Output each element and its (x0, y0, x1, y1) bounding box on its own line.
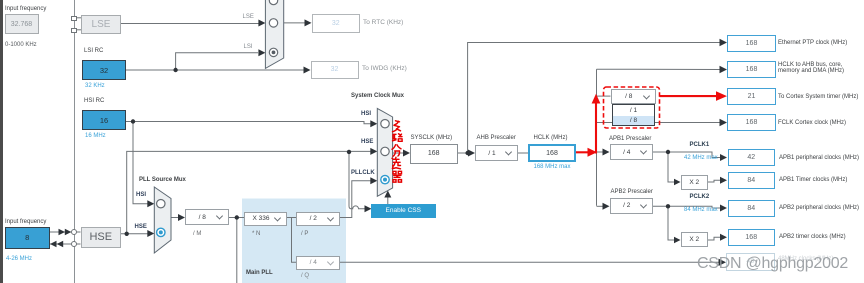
APB1 timer output box (728, 172, 776, 189)
wire PLL mux to /M divider (171, 217, 179, 219)
ethernet PTP output box (727, 35, 776, 52)
label AHB Prescaler (477, 135, 516, 142)
junction SYSCLK branch (465, 151, 469, 155)
APB2 prescaler dropdown (610, 198, 654, 214)
label To IWDG (KHz) (362, 65, 407, 72)
PLL M divider dropdown (185, 209, 229, 225)
label PCLK2 (690, 194, 710, 201)
wire N to /P (287, 217, 296, 219)
APB1 prescaler dropdown (610, 144, 654, 160)
arrowhead LSE into RTC mux (258, 20, 265, 27)
wire HCLK to AHB bus output (597, 68, 721, 70)
arrowhead double left 2 (57, 241, 64, 248)
vertical rail line (74, 0, 75, 283)
label APB1 peripheral (779, 155, 859, 162)
wire /M to PLL N multiplier (229, 217, 245, 219)
junction PCLK2 branch (666, 204, 670, 208)
wire N branch to /Q (292, 218, 297, 263)
HSI RC box 16 (82, 110, 126, 130)
wire HCLK vertical distribution (596, 69, 598, 206)
APB2 peripheral output box (728, 200, 776, 217)
junction HSE to CSS branch (347, 150, 351, 154)
label input frequency top (5, 6, 46, 13)
watermark (697, 255, 848, 273)
IWDG output box (311, 61, 359, 80)
arrowhead PLLCLK into system mux (370, 177, 377, 184)
cortex timer output box (727, 88, 776, 105)
LSI RC box 32 (82, 60, 126, 80)
label 0-1000 KHz (5, 42, 37, 49)
HSE input frequency box 8 (5, 227, 50, 250)
arrowhead HSE into system mux (370, 148, 377, 155)
arrowhead into APB1 peripheral box (720, 154, 727, 161)
system mux radio HSI (381, 120, 389, 128)
arrowhead PLL mux out to /M (178, 214, 185, 221)
label HSI RC (84, 98, 104, 105)
wire APB1 X2 to timer box (708, 180, 720, 182)
junction M branch (235, 215, 239, 219)
wire APB2 X2 to timer box (708, 237, 720, 240)
arrowhead into FCLK box (720, 119, 728, 126)
system mux radio PLLCLK selected (381, 175, 389, 183)
arrowhead into HCLK AHB box (720, 66, 728, 73)
FCLK output box (727, 114, 776, 131)
arrowhead into APB1 X2 (674, 179, 681, 186)
label 48MHz clocks faded (778, 256, 833, 263)
LSE port square top (71, 16, 77, 21)
label APB2 Prescaler (611, 189, 653, 196)
arrowhead HSI into PLL mux (147, 200, 154, 207)
label FCLK (778, 120, 846, 127)
red vertical wire up (595, 103, 597, 154)
PLL P divider dropdown (296, 212, 340, 226)
wire HSI RC to System Clock Mux (126, 122, 371, 124)
APB1 X2 multiplier (681, 175, 709, 191)
annotation char fen (392, 145, 401, 157)
LSE port square bottom (71, 28, 77, 33)
APB2 X2 multiplier (681, 232, 709, 247)
arrowhead LSI into RTC mux (258, 49, 265, 56)
label 4-26 MHz (6, 256, 32, 262)
label System Clock Mux (351, 93, 404, 100)
label HCLK (MHz) (534, 135, 568, 142)
PLL source mux (154, 187, 171, 253)
label 42 MHz max (684, 155, 718, 161)
wire PLLCLK /P to System Clock Mux (340, 181, 372, 218)
label SYSCLK (MHz) (411, 135, 453, 142)
red arrowhead into cortex timer box (716, 91, 727, 101)
wire stub to cortex divider (597, 95, 611, 97)
label HCLK AHB (778, 62, 844, 75)
label HSE at PLL mux (135, 224, 147, 231)
RTC mux radio LSI selected (269, 48, 277, 56)
APB1 peripheral output box (728, 149, 776, 166)
arrowhead APB1 X2 into timer box (720, 177, 727, 184)
arrowhead into APB1 prescaler (603, 149, 610, 156)
arrowhead into APB2 X2 (674, 237, 681, 244)
label ethernet PTP (778, 40, 847, 47)
RTC mux radio partial top (269, 0, 277, 5)
red dashed selection rectangle (604, 87, 660, 128)
wire HSE box to PLL Source Mux (121, 233, 148, 235)
label APB1 timer (779, 177, 847, 184)
wire branch to APB2 X2 (668, 206, 675, 240)
arrowhead Enable CSS up into mux (384, 191, 391, 198)
label 168 MHz max (534, 164, 571, 170)
label /M (193, 231, 201, 238)
label cortex timer (778, 94, 858, 101)
RTC clock mux (265, 0, 283, 68)
junction LSI branch (173, 68, 177, 72)
wire input-freq to HSE top (50, 231, 81, 233)
HSE port circle top (71, 229, 77, 235)
wire into APB2 prescaler (597, 205, 604, 207)
arrowhead double right 1 (59, 229, 66, 236)
label To RTC (KHz) (363, 19, 403, 26)
wire AHB prescaler to HCLK box (518, 152, 528, 154)
label input frequency bottom (5, 219, 46, 226)
SYSCLK value box (410, 144, 458, 164)
label /Q (301, 273, 309, 280)
arrowhead into AHB prescaler (468, 150, 475, 157)
PLL mux radio HSE selected (157, 228, 165, 236)
label HSI at system mux (361, 111, 371, 118)
arrowhead into APB2 prescaler (603, 203, 610, 210)
red arrowhead up (592, 94, 601, 104)
wire LSI RC to IWDG (126, 69, 304, 71)
system mux radio HSE (381, 147, 389, 155)
RTC mux radio LSE (269, 19, 277, 27)
wire RTC mux to RTC box (284, 22, 305, 24)
red wire HCLK to cortex divider (576, 151, 588, 153)
Enable CSS button (371, 204, 436, 218)
label Main PLL (246, 270, 273, 277)
AHB prescaler dropdown (475, 145, 518, 161)
HSE port circle bottom (71, 241, 77, 247)
junction PCLK1 branch (666, 150, 670, 154)
arrowhead into RTC box (305, 19, 312, 26)
RTC output box (312, 14, 360, 33)
cortex divider dropdown open (611, 89, 657, 104)
faded 48MHz output box (726, 253, 776, 271)
wire LSE box to RTC mux (121, 23, 260, 25)
HCLK value box blue (528, 144, 576, 162)
red wire divider to cortex timer box (660, 95, 717, 97)
label APB2 timer (779, 234, 846, 241)
label 84 MHz max (684, 207, 718, 213)
arrowhead into Enable CSS (365, 205, 372, 212)
wire PCLK1 to APB1 peripheral box (653, 152, 721, 158)
wire /Q output to 48MHz clocks (340, 261, 720, 263)
label APB2 peripheral (779, 205, 859, 212)
wire SYSCLK branch up to Ethernet PTP (468, 43, 720, 154)
PLL mux radio HSI (157, 200, 165, 208)
arrowhead mux out to SYSCLK box (403, 150, 410, 157)
label LSI at RTC mux (244, 44, 253, 51)
junction HSI branch (131, 119, 135, 123)
label HSE at system mux (361, 139, 373, 146)
label LSE at RTC mux (243, 14, 254, 21)
APB2 timer output box (728, 229, 776, 246)
wire FCLK output (597, 122, 721, 124)
arrowhead into APB2 peripheral box (720, 205, 727, 212)
label 32 KHz (85, 83, 105, 89)
label PCLK1 (690, 142, 710, 149)
LSE input frequency box 32.768 (5, 14, 39, 34)
arrowhead double right 2 (65, 229, 72, 236)
wire Enable CSS up into mux (387, 197, 389, 205)
arrowhead into 48MHz box (719, 259, 727, 266)
cortex divider option list (612, 104, 655, 126)
wire SYSCLK box to AHB prescaler (456, 152, 469, 154)
annotation char lu (393, 134, 403, 142)
HSE oscillator box (81, 227, 122, 249)
wire HSE to input-freq bottom (50, 243, 81, 245)
label *N (252, 231, 260, 238)
arrowhead double left 1 (50, 241, 57, 248)
wire HSE branch up to System Clock Mux (127, 151, 371, 233)
arrowhead HSI into system mux (370, 120, 377, 127)
main PLL panel (242, 199, 346, 283)
stub LSE port top (77, 17, 81, 19)
arrowhead into ethernet PTP box (720, 39, 728, 46)
wire HSE branch down to Enable CSS with hop (349, 152, 366, 209)
system clock mux (377, 108, 392, 196)
label 16 MHz (85, 133, 106, 139)
HCLK AHB output box (727, 61, 776, 78)
wire /M branch down offscreen (236, 218, 238, 283)
LSE oscillator box (81, 15, 121, 34)
left dark sidebar (0, 0, 3, 283)
PLL N multiplier dropdown (244, 212, 287, 226)
wire branch to APB1 X2 (668, 152, 675, 182)
arrowhead APB2 X2 into timer box (720, 234, 727, 241)
annotation char xuan (392, 157, 401, 169)
arrowhead HSE into PLL mux (147, 230, 154, 237)
arrowhead into IWDG box (304, 67, 311, 74)
label PLL Source Mux (139, 177, 186, 184)
PLL Q divider dropdown (296, 256, 340, 270)
label HSI at PLL mux (136, 192, 146, 199)
annotation char duo (393, 121, 401, 132)
junction HSE branch (125, 232, 129, 236)
label APB1 Prescaler top (609, 136, 651, 143)
wire into APB1 prescaler (597, 151, 604, 153)
label PLLCLK at system mux (351, 170, 375, 177)
wire PCLK2 to APB2 peripheral box (653, 206, 721, 208)
wire SYSCLK mux to SYSCLK box (393, 152, 404, 154)
wire LSI branch up to RTC mux (176, 53, 258, 70)
label /P (301, 231, 308, 238)
annotation char qi (393, 171, 402, 182)
wire HSI branch down to PLL Source Mux (133, 122, 148, 204)
red arrowhead right at HCLK junction (588, 148, 598, 157)
label LSI RC (84, 48, 103, 55)
stub LSE port bottom (77, 29, 81, 31)
